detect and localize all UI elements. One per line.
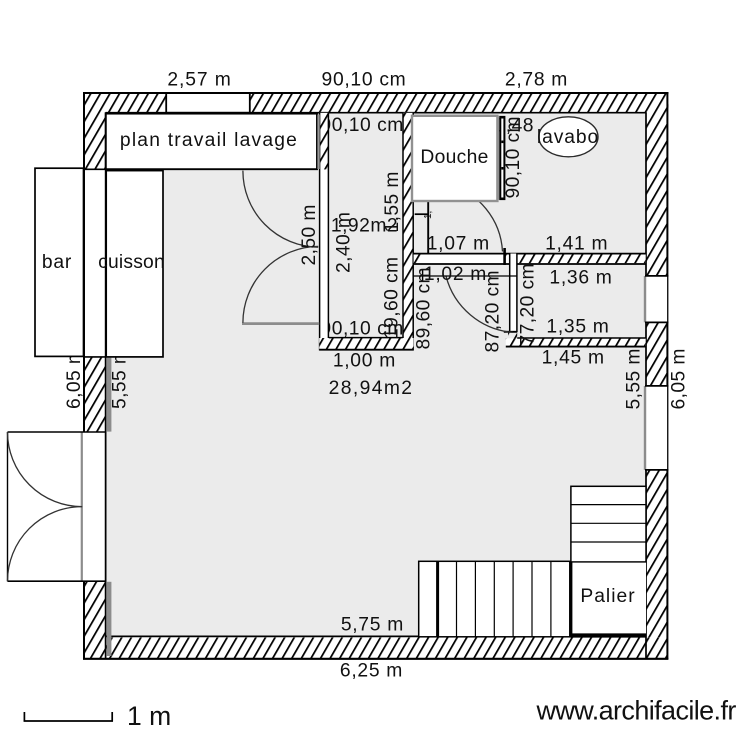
- lavabo ellipse: [539, 117, 598, 157]
- corridor left wall W1: [319, 113, 329, 351]
- svg-text:1,07 m: 1,07 m: [427, 233, 490, 254]
- WC bottom wall W6: [506, 338, 646, 346]
- wire outer right line: [666, 92, 668, 659]
- svg-text:2,57 m: 2,57 m: [167, 69, 231, 90]
- WC left wall W5: [509, 254, 517, 333]
- svg-text:6,05 m: 6,05 m: [669, 348, 690, 409]
- wall bottom white band: [83, 637, 668, 659]
- hatch left wall upper segment: [84, 113, 106, 170]
- svg-text:19,60 cm: 19,60 cm: [382, 256, 403, 339]
- svg-text:2,40 m: 2,40 m: [334, 212, 355, 273]
- wire outer bottom line: [83, 658, 668, 660]
- bar box: [35, 168, 84, 356]
- svg-text:1,36 m: 1,36 m: [549, 268, 612, 289]
- svg-text:1,45 m: 1,45 m: [542, 347, 605, 368]
- dimension tick 1,02 left: [422, 270, 424, 283]
- hatch right wall mid segment: [646, 322, 668, 386]
- palier box: [570, 562, 646, 637]
- svg-text:Palier: Palier: [580, 586, 635, 607]
- door left outer gray leaf line: [81, 432, 83, 582]
- bathroom door jamb vline: [427, 201, 429, 254]
- svg-text:lavabo: lavabo: [537, 127, 599, 148]
- hatch top wall right segment: [250, 93, 669, 113]
- hatch left wall mid segment: [84, 357, 106, 432]
- scale bar: [24, 720, 113, 722]
- svg-text:2,78 m: 2,78 m: [505, 69, 568, 90]
- stairs lower run: [419, 561, 570, 637]
- svg-text:5,75 m: 5,75 m: [341, 615, 404, 636]
- door left outer inner jamb line: [105, 432, 107, 582]
- bathroom bottom wall W4: [414, 254, 646, 263]
- svg-text:www.archifacile.fr: www.archifacile.fr: [536, 696, 737, 726]
- svg-text:1,: 1,: [423, 211, 434, 219]
- svg-text:cuisson: cuisson: [98, 252, 165, 273]
- svg-text:1,00 m: 1,00 m: [333, 351, 396, 372]
- wall left white band: [83, 92, 106, 659]
- svg-text:90,10 cm: 90,10 cm: [322, 69, 407, 90]
- svg-text:87,20 cm: 87,20 cm: [483, 270, 504, 353]
- svg-text:bar: bar: [42, 252, 72, 273]
- window right wall lower: [646, 386, 667, 469]
- gray shadow left wall below door: [107, 582, 112, 656]
- corridor door swing arc bottom: [243, 246, 318, 322]
- plan travail lavage box: [106, 114, 317, 170]
- door left outer top line: [8, 431, 106, 433]
- svg-text:1,41 m: 1,41 m: [545, 233, 608, 254]
- door left outer swing arc bottom: [8, 507, 83, 582]
- corridor door swing arc top: [243, 171, 318, 248]
- svg-text:6,25 m: 6,25 m: [340, 661, 403, 682]
- window right wall upper (WC window): [646, 276, 667, 322]
- svg-text:1 m: 1 m: [127, 701, 171, 731]
- wall top white band: [83, 92, 668, 113]
- corridor right wall W2: [403, 113, 414, 351]
- wire outer top line: [83, 92, 668, 94]
- window top (fenetre): [166, 94, 249, 111]
- svg-text:1,55 m: 1,55 m: [382, 171, 403, 232]
- glazing gray line WC window: [644, 276, 646, 322]
- stairs lower thick line: [436, 561, 439, 637]
- jamb top bar window: [83, 168, 106, 170]
- hatch left wall lower segment: [84, 582, 106, 638]
- hatch top wall left segment: [83, 93, 166, 113]
- floor main room: [83, 92, 668, 659]
- svg-text:2,50 m: 2,50 m: [299, 204, 320, 265]
- corridor bottom wall W3: [319, 338, 413, 350]
- jamb bottom bar window: [83, 356, 106, 358]
- svg-text:1,35 m: 1,35 m: [546, 316, 609, 337]
- hatch right wall lower segment: [646, 470, 668, 638]
- hatch bottom wall: [84, 638, 668, 659]
- svg-text:5,55 m: 5,55 m: [624, 348, 645, 409]
- bathroom door tick hline: [415, 213, 429, 215]
- plan travail right gray shadow: [317, 115, 319, 170]
- window left wall (bar window): [85, 170, 105, 356]
- door left outer swing arc top: [8, 432, 83, 507]
- hatch right wall upper segment: [646, 113, 668, 277]
- svg-text:77,20 cm: 77,20 cm: [518, 263, 539, 346]
- wire inner left line: [105, 112, 107, 658]
- svg-text:plan travail lavage: plan travail lavage: [120, 130, 298, 151]
- bathroom door swing arc: [448, 184, 503, 252]
- corridor double door gray bottom line: [242, 322, 319, 325]
- wire inner right line: [645, 112, 647, 658]
- stairs upper run: [571, 486, 646, 562]
- wire outer left line: [83, 92, 85, 659]
- door left outer envelope edge: [7, 432, 9, 581]
- gray shadow left wall below cuisson: [107, 358, 112, 432]
- sliding door bar: [495, 116, 500, 200]
- svg-text:Douche: Douche: [420, 147, 488, 168]
- glazing gray line bar window: [81, 169, 83, 356]
- cuisson box: [106, 171, 163, 357]
- wire inner bottom line: [106, 635, 646, 637]
- bathroom door right jamb stub: [503, 248, 506, 265]
- WC door swing arc: [446, 276, 513, 332]
- wire inner top line: [106, 112, 646, 114]
- door left outer bottom line: [8, 580, 106, 582]
- wall right white band: [646, 92, 669, 659]
- svg-text:28,94m2: 28,94m2: [329, 378, 414, 399]
- douche box: [412, 116, 497, 201]
- glazing gray line lower window: [644, 386, 646, 470]
- svg-text:90,10 cm: 90,10 cm: [321, 115, 404, 136]
- door left outer (double) white cover: [81, 432, 106, 580]
- dimension line 1,02: [414, 275, 517, 277]
- svg-text:90,10 cm: 90,10 cm: [503, 116, 524, 199]
- svg-text:89,60 cm: 89,60 cm: [414, 267, 435, 350]
